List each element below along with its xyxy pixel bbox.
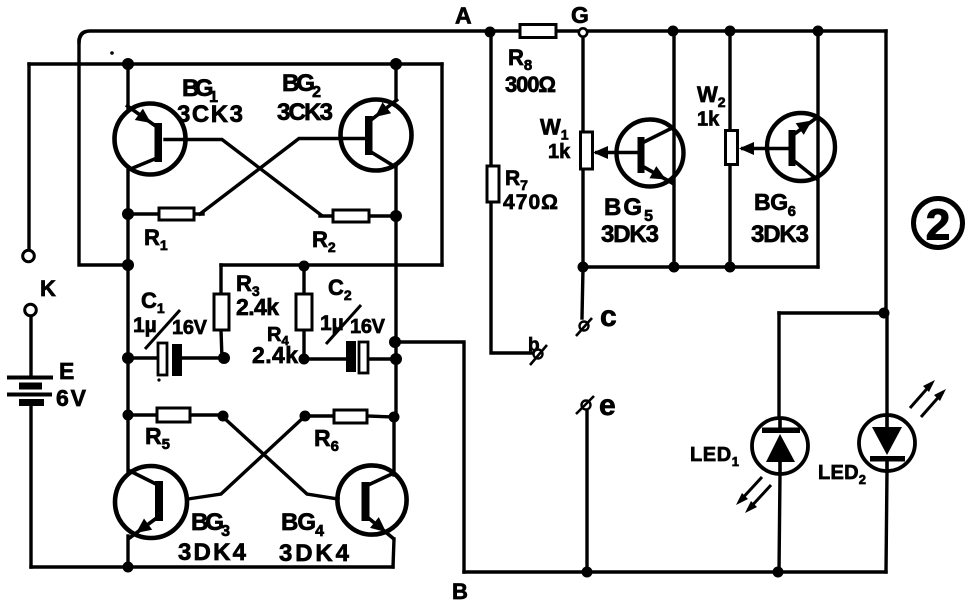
wire bottom rail right B	[464, 570, 886, 573]
svg-text:3CK3: 3CK3	[277, 99, 333, 126]
wire x128 C1 to R5 to BG3	[126, 360, 129, 472]
node bottom rail e	[582, 567, 593, 578]
figure number circled 2	[914, 199, 963, 250]
node C2 right	[390, 353, 402, 365]
node LED link y313	[879, 308, 890, 319]
svg-text:K: K	[40, 276, 56, 301]
svg-text:3DK4: 3DK4	[178, 539, 247, 566]
transistor BG4	[337, 465, 406, 539]
wire K to battery	[29, 317, 32, 375]
resistor R2	[333, 210, 369, 222]
wire left drop from top rail to y265	[79, 40, 126, 265]
wire box left edge to switch K	[27, 64, 30, 249]
label C2 slash	[326, 305, 361, 344]
wire LED2 branch lower	[886, 471, 887, 572]
wire R1 row	[128, 212, 203, 215]
resistor R7	[487, 166, 499, 202]
svg-text:A: A	[455, 3, 472, 29]
node BG5 rail x730	[725, 262, 736, 273]
wire BG5 block bottom rail	[583, 265, 818, 268]
svg-text:B: B	[452, 579, 468, 604]
terminal b	[530, 345, 547, 365]
svg-text:2.4k: 2.4k	[236, 294, 279, 320]
wire C1 row	[128, 356, 225, 359]
capacitor C1	[158, 343, 182, 376]
wire BG2 base cross to R1	[200, 139, 370, 215]
potentiometer W1 body	[581, 132, 593, 169]
wire BG2 collector down through R2 C2 R6	[394, 166, 397, 418]
terminal e	[576, 396, 594, 414]
wire R3 link down	[221, 265, 222, 359]
svg-text:1k: 1k	[697, 109, 720, 131]
wire W2 to bottom rail	[728, 164, 731, 267]
node R1 left	[122, 208, 134, 220]
wire node A drop to R7	[489, 33, 492, 166]
wire BG5 collector-emitter vertical	[672, 31, 675, 267]
wire box top edge	[29, 62, 442, 65]
svg-text:E: E	[59, 358, 74, 384]
node box top right	[390, 58, 402, 70]
svg-text:2.4k: 2.4k	[252, 342, 298, 368]
node C2 left	[299, 354, 310, 365]
svg-text:1µ: 1µ	[320, 312, 344, 335]
wire R2 row	[320, 214, 396, 217]
svg-text:16V: 16V	[350, 316, 386, 338]
terminal c	[576, 318, 592, 336]
node C1 right	[218, 352, 230, 364]
node top rail x818	[813, 26, 824, 37]
speck artifact 2	[157, 378, 160, 381]
svg-text:1k: 1k	[548, 141, 571, 163]
svg-text:3DK3: 3DK3	[601, 221, 659, 248]
wire BG2 emitter drop	[394, 64, 397, 100]
svg-text:16V: 16V	[172, 317, 208, 339]
node output y342	[389, 336, 401, 348]
wire node to terminal c	[582, 268, 583, 318]
wire top rail A-G	[79, 31, 520, 42]
capacitor C2	[346, 341, 368, 373]
svg-text:6V: 6V	[56, 385, 87, 411]
wire LED1 branch upper	[777, 313, 780, 418]
wire battery to bottom rail	[29, 406, 32, 567]
node top rail x730	[725, 26, 736, 37]
wire terminal e drop	[585, 410, 588, 572]
node y265 x128	[122, 259, 134, 271]
potentiometer W2 body	[726, 131, 738, 165]
resistor R8	[520, 25, 556, 38]
wire G down to W1	[581, 37, 584, 134]
wire top rail right of R8	[556, 29, 886, 32]
svg-text:470Ω: 470Ω	[503, 191, 558, 214]
node BG5 rail left	[578, 262, 589, 273]
terminal G	[579, 28, 587, 36]
transistor BG6	[739, 113, 835, 181]
resistor R6	[334, 410, 367, 423]
speck artifact	[110, 51, 114, 55]
wire R5 cross to BG4 base	[223, 417, 338, 499]
switch K terminal top	[23, 250, 35, 262]
wire BG4 emitter to bottom corner	[393, 539, 394, 567]
node bottom rail x128	[123, 562, 134, 573]
wire y265 rail to R3 corner	[221, 263, 442, 266]
wire C2 row	[304, 357, 396, 360]
wire R7 to terminal b	[491, 202, 532, 353]
svg-text:300Ω: 300Ω	[505, 72, 556, 97]
node R6 right	[389, 412, 400, 423]
switch K terminal bottom	[25, 304, 37, 316]
wire BG3 emitter to bottom rail	[126, 536, 129, 567]
node bottom rail LED1	[773, 567, 784, 578]
node R5 left	[123, 410, 134, 421]
node A	[485, 27, 496, 38]
svg-text:2: 2	[926, 201, 950, 250]
node R5 right	[218, 411, 229, 422]
wire LED1 branch lower	[779, 474, 780, 572]
wire output y342 to B drop	[396, 342, 464, 572]
wire LED2 branch upper	[885, 313, 888, 415]
wire W2 drop from top rail	[728, 31, 731, 131]
transistor BG5	[593, 120, 684, 187]
wire BG1 collector to R1 and down	[126, 167, 129, 360]
resistor R1	[159, 208, 194, 220]
node C1 left	[122, 352, 134, 364]
battery E plates	[7, 378, 53, 403]
wire W1 to node dot	[581, 169, 584, 268]
resistor R4	[296, 294, 312, 330]
svg-text:3DK3: 3DK3	[751, 221, 809, 248]
node BG5 rail x674	[669, 262, 680, 273]
wire R6 row	[305, 416, 394, 417]
transistor BG2	[341, 99, 412, 171]
node R6 left	[300, 411, 311, 422]
resistor R3	[214, 294, 229, 330]
wire BG6 vertical	[816, 31, 819, 267]
wire R4 link down	[302, 266, 305, 359]
node top rail x672	[668, 26, 679, 37]
transistor BG1	[115, 104, 186, 175]
wire BG1 emitter drop	[126, 64, 129, 108]
svg-text:G: G	[571, 2, 589, 28]
svg-text:c: c	[600, 300, 617, 333]
wire BG1 base cross to R2	[165, 140, 321, 216]
wire R6 cross to BG3 base	[188, 417, 304, 499]
resistor R5	[157, 408, 190, 422]
wire LED top link y313	[779, 311, 886, 314]
svg-text:3CK3: 3CK3	[177, 101, 243, 128]
node box top left	[122, 58, 134, 70]
node y265 x304	[299, 261, 310, 272]
wire box right edge	[440, 64, 443, 265]
LED1	[736, 418, 808, 513]
node R2 right	[390, 210, 402, 222]
wire right edge from top rail	[884, 31, 887, 313]
wire BG4 collector up	[392, 418, 395, 475]
wire bottom rail left	[31, 565, 393, 568]
svg-text:1µ: 1µ	[133, 314, 157, 337]
LED2	[859, 380, 946, 471]
svg-text:b: b	[528, 335, 540, 356]
transistor BG3	[115, 466, 187, 539]
wire R5 row	[128, 413, 222, 416]
label C1 slash	[145, 310, 180, 349]
svg-text:e: e	[599, 389, 616, 422]
